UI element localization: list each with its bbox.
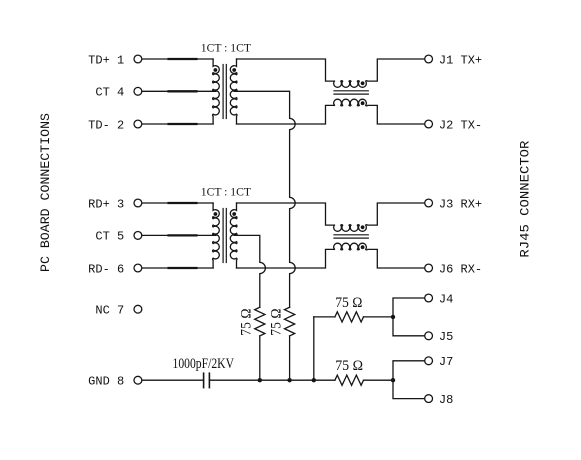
wire R1 bottom to GND rail	[289, 336, 291, 380]
svg-text:PC BOARD CONNECTIONS: PC BOARD CONNECTIONS	[38, 113, 53, 272]
wire CT 4 pin wire	[142, 90, 216, 92]
J8 terminal circle	[425, 395, 433, 403]
choke L2 bottom winding	[334, 243, 425, 268]
wire CT 5 pin wire	[142, 234, 216, 236]
svg-text:1CT : 1CT: 1CT : 1CT	[201, 187, 251, 199]
transformer T2 primary winding (RD side)	[213, 203, 220, 268]
pin 1 TD+ terminal circle	[134, 55, 142, 63]
J1 terminal circle	[425, 55, 433, 63]
pin 2 TD- terminal circle	[134, 120, 142, 128]
pin 6 RD- terminal circle	[134, 264, 142, 272]
pin 4 CT terminal circle	[134, 87, 142, 95]
wire R3 to J4/J5 node	[364, 316, 394, 318]
wire T1 secondary bottom to choke L1	[237, 105, 335, 124]
transformer T1 secondary winding	[230, 59, 237, 124]
J3 terminal circle	[425, 199, 433, 207]
wire branch up from GND rail	[313, 317, 315, 380]
J6 terminal circle	[425, 264, 433, 272]
phase dot L1 top	[361, 81, 365, 85]
junction J7/J8/GND	[391, 378, 395, 382]
wire R2 bottom to GND rail	[259, 336, 261, 380]
junction R1/GND	[287, 378, 291, 382]
svg-text:J7: J7	[439, 355, 453, 369]
transformer T1 primary winding (TD side)	[213, 59, 220, 124]
J5 terminal circle	[425, 332, 433, 340]
phase dot T1 secondary	[232, 68, 236, 72]
svg-text:1000pF/2KV: 1000pF/2KV	[173, 356, 235, 372]
transformer T2 secondary winding	[230, 203, 237, 268]
svg-text:1CT : 1CT: 1CT : 1CT	[201, 43, 251, 55]
phase dot T1 primary	[214, 68, 218, 72]
choke L2 core	[334, 234, 368, 236]
J4 terminal circle	[425, 294, 433, 302]
wire T1 CT tap to node, vertical with hops over J2/J3/J6 wires	[234, 91, 295, 307]
phase dot L1 bottom	[361, 101, 365, 105]
svg-text:J6 RX-: J6 RX-	[439, 262, 482, 276]
wire GND rail	[209, 379, 335, 381]
svg-text:NC 7: NC 7	[95, 304, 124, 318]
choke L1 bottom winding	[334, 99, 425, 124]
phase dot L2 bottom	[361, 245, 365, 249]
svg-text:RD+ 3: RD+ 3	[88, 197, 124, 211]
wire RD- 6 pin wire	[142, 267, 213, 269]
svg-text:J2 TX-: J2 TX-	[439, 118, 482, 132]
junction branch/GND	[312, 378, 316, 382]
svg-text:J8: J8	[439, 393, 453, 407]
wire T2 secondary bottom to choke L2	[237, 249, 335, 268]
transformer T2 core	[222, 209, 224, 263]
svg-text:CT 5: CT 5	[95, 230, 124, 244]
wire branch to R3	[314, 316, 335, 318]
wire T2 CT tap to node, vertical with hop over J6 wire	[234, 235, 265, 307]
svg-text:75 Ω: 75 Ω	[335, 295, 362, 311]
choke L1 top winding	[334, 59, 425, 87]
wire TD- 2 pin wire	[142, 123, 213, 125]
pin 8 GND terminal circle	[134, 376, 142, 384]
wire R4 to J7/J8 node	[364, 379, 394, 381]
svg-text:TD- 2: TD- 2	[88, 118, 124, 132]
phase dot T2 primary	[214, 212, 218, 216]
resistor R3 75ohm (J4/J5)	[335, 312, 364, 322]
wire RD+ 3 pin wire	[142, 202, 213, 204]
svg-text:RJ45 CONNECTOR: RJ45 CONNECTOR	[518, 140, 533, 257]
J2 terminal circle	[425, 120, 433, 128]
wire J7/J8 split	[393, 361, 424, 399]
capacitor C1 1000pF/2KV plates	[203, 373, 205, 387]
svg-text:RD- 6: RD- 6	[88, 262, 124, 276]
resistor R4 75ohm (J7/J8)	[335, 375, 364, 385]
svg-text:GND 8: GND 8	[88, 375, 124, 389]
svg-text:75 Ω: 75 Ω	[239, 309, 255, 336]
svg-text:75 Ω: 75 Ω	[268, 309, 284, 336]
choke L1 core	[334, 90, 368, 92]
wire J4/J5 split	[393, 298, 424, 336]
svg-text:TD+ 1: TD+ 1	[88, 53, 124, 67]
wire T1 secondary top to choke L1	[237, 59, 335, 81]
resistor R2 75ohm (from T2 CT)	[255, 307, 265, 336]
phase dot T2 secondary	[232, 212, 236, 216]
svg-text:J4: J4	[439, 292, 453, 306]
pin 3 RD+ terminal circle	[134, 199, 142, 207]
svg-text:J3 RX+: J3 RX+	[439, 197, 482, 211]
svg-text:J5: J5	[439, 330, 453, 344]
pin 7 NC terminal circle	[134, 305, 142, 313]
pin 5 CT terminal circle	[134, 232, 142, 240]
transformer T1 core	[222, 65, 224, 119]
wire T2 secondary top to choke L2	[237, 203, 335, 225]
resistor R1 75ohm (from T1 CT)	[285, 307, 295, 336]
wire GND 8 to capacitor	[142, 379, 203, 381]
svg-text:CT 4: CT 4	[95, 86, 124, 100]
junction R3/J4/J5	[391, 315, 395, 319]
wire TD+ 1 pin wire	[142, 58, 213, 60]
choke L2 top winding	[334, 203, 425, 231]
svg-text:J1 TX+: J1 TX+	[439, 53, 482, 67]
junction R2/GND	[258, 378, 262, 382]
svg-text:75 Ω: 75 Ω	[335, 358, 363, 374]
J7 terminal circle	[425, 357, 433, 365]
phase dot L2 top	[361, 225, 365, 229]
